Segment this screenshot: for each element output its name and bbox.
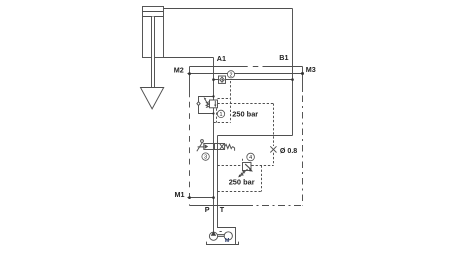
node: relief loop bottom	[212, 112, 214, 114]
label circle 1	[217, 110, 224, 117]
pilot line: relief 1 box top	[218, 98, 231, 100]
node: check line on B1	[291, 78, 294, 81]
pilot line: valve 4 right to orifice line	[252, 165, 274, 167]
node: check line on A1	[212, 78, 215, 81]
pilot line: relief 1 to orifice	[218, 103, 274, 105]
directional valve V3 right X	[220, 144, 224, 149]
node: relief loop top	[212, 95, 214, 97]
manifold boundary left	[189, 67, 191, 98]
svg-text:M1: M1	[175, 190, 185, 199]
svg-text:M3: M3	[306, 65, 316, 74]
node: M1 junction on P line	[212, 196, 215, 199]
svg-text:M2: M2	[174, 66, 184, 75]
wire: T line lower to tank	[218, 150, 236, 245]
wire: M1 port line	[187, 197, 213, 199]
relief valve U1 body	[210, 100, 218, 108]
pilot line: valve 4 ring bottom to T	[218, 191, 262, 193]
wire: B1 horizontal to valve 3	[218, 135, 293, 137]
svg-text:4: 4	[249, 155, 252, 161]
electric motor M	[224, 232, 232, 240]
label circle 2	[227, 71, 234, 78]
directional valve V3 body	[204, 144, 225, 150]
load arrow (weight)	[141, 88, 164, 109]
relief valve U1 adjust arrow	[204, 98, 208, 105]
relief valve V4 body	[243, 163, 252, 171]
pilot line: relief 1 drain stub	[216, 108, 218, 122]
relief valve U1 bypass loop	[199, 97, 214, 114]
label circle 3	[202, 153, 209, 160]
svg-text:Ø 0.8: Ø 0.8	[280, 147, 297, 155]
svg-text:T: T	[220, 205, 225, 214]
wire: cylinder rod-side line to A1	[164, 57, 214, 59]
svg-text:1: 1	[220, 112, 223, 118]
node: M2 port	[188, 72, 191, 75]
svg-text:P: P	[205, 205, 210, 214]
directional valve V3 roller	[201, 140, 204, 143]
label circle 4	[247, 153, 255, 161]
pilot line: stub above valve 4	[242, 159, 244, 163]
relief valve U1 flow arrow	[214, 101, 216, 105]
pilot line: valve 4 ring right	[261, 166, 263, 192]
relief valve V4 spring	[240, 171, 246, 176]
wire: M2 to M3 gauge line	[187, 73, 302, 75]
pilot line: orifice vertical upper	[273, 104, 275, 147]
cylinder rod	[152, 17, 155, 88]
wire: T line upper into valve 3	[217, 136, 219, 144]
wire: cylinder cap-side line to B1	[164, 8, 293, 10]
directional valve V3 port lines	[214, 144, 218, 150]
pump P1	[209, 232, 217, 240]
manifold boundary bottom	[190, 205, 247, 207]
svg-text:3: 3	[204, 155, 207, 161]
wire: main P/A1 vertical line	[213, 58, 215, 233]
relief valve U1 spring	[206, 102, 210, 108]
check valve C2 diamond	[220, 77, 225, 82]
svg-text:A1: A1	[217, 54, 226, 63]
cylinder barrel	[143, 7, 164, 58]
node: M3 port	[301, 72, 304, 75]
tank tray	[207, 242, 239, 245]
check valve C2 body	[219, 76, 226, 83]
directional valve V3 divider	[214, 144, 216, 150]
check valve C2 poppet	[221, 79, 223, 81]
pilot line: T to valve 4 left	[218, 165, 243, 167]
directional valve V3 drain hook	[233, 147, 235, 151]
orifice (0.8mm)	[270, 146, 276, 152]
svg-text:M: M	[225, 238, 230, 244]
motor shaft	[218, 232, 225, 237]
svg-text:2: 2	[230, 72, 233, 78]
relief valve U1 drain diamond	[197, 102, 200, 106]
svg-text:B1: B1	[279, 53, 288, 62]
node: M1 port	[188, 196, 191, 199]
pump P1 flow triangle	[211, 231, 217, 235]
directional valve V3 spring	[225, 144, 233, 148]
relief valve V4 adjust arrow	[239, 169, 247, 176]
pilot line: check outlet down	[230, 81, 232, 123]
manifold boundary right	[302, 67, 304, 93]
manifold boundary top	[190, 66, 303, 68]
pilot line: orifice vertical lower	[273, 153, 275, 166]
wire: check valve branch A1 to B1	[214, 79, 293, 81]
svg-text:250 bar: 250 bar	[229, 178, 255, 187]
wire: B1 vertical drop	[292, 9, 294, 136]
relief valve V4 flow arrow	[245, 164, 250, 169]
directional valve V3 lever	[197, 142, 204, 151]
svg-text:250 bar: 250 bar	[232, 110, 258, 119]
pilot line: relief 1 box bottom	[214, 122, 231, 124]
directional valve V3 left arrow	[205, 144, 209, 149]
cylinder piston	[143, 12, 164, 17]
